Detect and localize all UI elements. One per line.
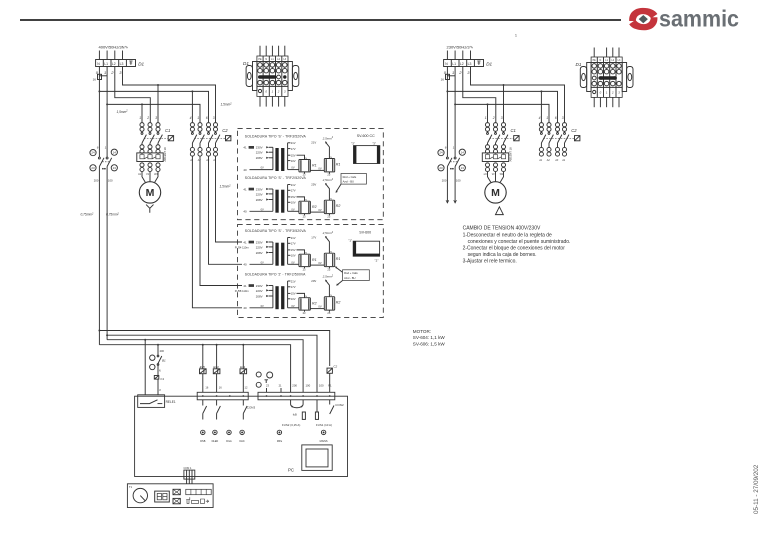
contactor C2: [189, 116, 231, 162]
svg-text:2-Conectar el bloque de co: 2-Conectar el bloque de conexiones del m…: [463, 245, 566, 251]
wire B1 chain: [157, 345, 159, 356]
delta symbol: [496, 207, 504, 215]
svg-text:MPa: MPa: [277, 440, 283, 443]
buttons: [173, 489, 180, 494]
svg-text:1,5mm2: 1,5mm2: [220, 185, 232, 189]
fuse F on wire 0: [98, 74, 102, 79]
svg-text:1: 1: [515, 34, 517, 38]
connector CON3: [197, 392, 255, 409]
svg-text:DLED: DLED: [212, 440, 219, 443]
svg-text:DAC: DAC: [239, 440, 244, 443]
terminal strip D1 right: [444, 60, 484, 67]
junction EV1 drop: [242, 344, 244, 346]
wire right C1 pole1 drop: [487, 104, 489, 122]
svg-text:L2: L2: [460, 62, 464, 66]
transformer TRF3 section 3: [243, 236, 334, 271]
wire bundle line 3: [107, 340, 303, 393]
wire C2 out3 to TRF3 40: [209, 156, 243, 264]
junction EV5 drop: [202, 344, 204, 346]
svg-text:sammic: sammic: [659, 6, 739, 32]
svg-text:T1: T1: [129, 485, 133, 489]
note arrow up: [336, 268, 342, 273]
svg-text:20V: 20V: [311, 279, 316, 283]
connector CON2: [258, 392, 344, 407]
svg-text:fuB: fuB: [293, 413, 297, 417]
svg-text:05-11 - 27/09/202: 05-11 - 27/09/202: [753, 464, 760, 514]
wire C1 pole3 drop: [157, 85, 159, 122]
svg-text:21V: 21V: [311, 141, 316, 145]
svg-text:1,5mm2: 1,5mm2: [221, 103, 233, 107]
wire L2 drop: [115, 67, 151, 123]
svg-text:3-Ajustar el rele termico.: 3-Ajustar el rele termico.: [463, 258, 517, 264]
svg-text:L1: L1: [104, 62, 108, 66]
icon row 2: [186, 497, 190, 503]
contacts below CON3: [203, 400, 247, 420]
main switch Q: [90, 146, 118, 183]
svg-text:17V: 17V: [311, 235, 316, 239]
svg-text:3: 3: [467, 70, 470, 75]
svg-text:MOTOR:: MOTOR:: [413, 329, 431, 334]
terminal labels above CON2: [292, 383, 332, 387]
contactor C2 right: [538, 116, 580, 162]
svg-text:CON 1: CON 1: [184, 466, 192, 470]
solenoid EV1: [242, 345, 244, 369]
svg-text:CON2: CON2: [335, 403, 344, 407]
fuse F on wire 0: [446, 74, 450, 79]
svg-text:SOLDADURA TIPO '2' - TRF2/: SOLDADURA TIPO '2' - TRF2/500VA: [245, 273, 306, 277]
wire bundle line 1: [99, 331, 329, 367]
main switch right: [438, 146, 466, 183]
svg-text:CON3: CON3: [247, 405, 256, 409]
svg-text:"2": "2": [375, 259, 379, 263]
svg-text:L1: L1: [452, 62, 456, 66]
svg-text:2,5mm2: 2,5mm2: [322, 275, 334, 279]
svg-text:12: 12: [245, 385, 248, 389]
junction right L3/C1p3: [503, 84, 505, 86]
top rule: [20, 19, 621, 21]
junction C2p1: [540, 90, 542, 92]
junction L1/C1p1: [141, 103, 143, 105]
terminal strip D1: [96, 60, 136, 67]
transformer TRF3 section 1: [243, 141, 334, 177]
breaker link tick: [99, 75, 107, 77]
svg-text:1: 1: [452, 70, 454, 75]
connector block D1 top middle: [246, 46, 299, 107]
wire 2 drop: [463, 67, 496, 123]
svg-text:N: N: [97, 62, 100, 66]
svg-text:100: 100: [319, 383, 324, 387]
svg-text:0,75mm2: 0,75mm2: [106, 213, 120, 217]
svg-text:0: 0: [159, 388, 161, 392]
contactor C1 right with motor: [482, 116, 519, 203]
svg-text:R1: R1: [336, 257, 341, 261]
pressure switch M4: [256, 372, 282, 392]
wire L1 feed line: [107, 104, 200, 122]
wire C2 out4 to TRF3 41: [216, 156, 243, 242]
svg-text:L2: L2: [112, 62, 116, 66]
svg-text:Azul - BU: Azul - BU: [343, 180, 354, 184]
junction N tee: [98, 90, 100, 92]
svg-text:MAINS: MAINS: [320, 440, 328, 443]
svg-text:2,5mm2: 2,5mm2: [322, 136, 334, 140]
svg-text:FUS2 (3,15 A): FUS2 (3,15 A): [282, 423, 300, 427]
solenoid EV3: [216, 345, 218, 369]
svg-text:R1: R1: [312, 258, 317, 262]
svg-text:Azul - BU: Azul - BU: [344, 276, 355, 280]
svg-text:D1: D1: [486, 61, 492, 66]
svg-text:SOLDADURA TIPO 'S' - TRF2/: SOLDADURA TIPO 'S' - TRF2/520VA: [245, 176, 307, 180]
trunk N lower segment: [98, 167, 100, 345]
wire C1 pole1 drop: [141, 104, 143, 122]
wire right C2 pole1 drop: [540, 91, 542, 122]
junction L1 bundle tee: [106, 334, 108, 336]
junction EV3 drop: [216, 344, 218, 346]
motor ratings note: [413, 329, 446, 347]
svg-text:"3": "3": [372, 141, 376, 145]
colour note box 1: [341, 174, 366, 185]
block wires top: [593, 48, 595, 58]
svg-text:1,5mm2: 1,5mm2: [117, 110, 129, 114]
knob: [133, 488, 147, 502]
svg-text:23: 23: [266, 384, 269, 388]
svg-text:R2: R2: [336, 204, 341, 208]
svg-text:"1": "1": [348, 238, 352, 242]
display: [155, 491, 170, 502]
svg-text:D1: D1: [576, 62, 582, 67]
relay RELE1: [138, 395, 176, 408]
wire C2 out1 to TRF4 0V: [192, 156, 242, 308]
svg-text:FU58 110m: FU58 110m: [235, 289, 250, 293]
svg-text:FU34 110m: FU34 110m: [235, 245, 250, 249]
svg-text:200: 200: [292, 383, 297, 387]
wire numbers 0 1 2 3: [96, 70, 123, 75]
junction C1p1: [487, 103, 489, 105]
svg-text:Rod + Cafe: Rod + Cafe: [343, 175, 357, 179]
svg-text:0,75mm2: 0,75mm2: [81, 213, 95, 217]
contactor C1 with thermal relay and motor M: [137, 116, 174, 203]
logo diamond: [639, 15, 648, 23]
svg-text:21: 21: [279, 384, 282, 388]
svg-text:16: 16: [219, 385, 222, 389]
svg-text:25V: 25V: [311, 182, 316, 186]
jumper bar: [258, 75, 277, 79]
wire C2 out2 to TRF4 41: [200, 156, 242, 285]
svg-text:SV-606: 1,5 kW: SV-606: 1,5 kW: [413, 342, 446, 347]
wire bundle line 4: [99, 345, 290, 393]
breaker link tick: [447, 75, 455, 77]
svg-text:N: N: [445, 62, 448, 66]
svg-text:2: 2: [458, 70, 462, 75]
block wires top: [259, 46, 261, 56]
svg-text:SOLDADURA TIPO 'S' - TRF3/: SOLDADURA TIPO 'S' - TRF3/520VA: [245, 134, 307, 138]
wire numbers 0 1 2 3: [444, 70, 471, 75]
trunk ends: [446, 167, 448, 203]
svg-text:2,5mm2: 2,5mm2: [322, 178, 334, 182]
svg-text:R1: R1: [336, 162, 341, 166]
svg-text:C2: C2: [333, 364, 337, 368]
svg-text:SV-600 CC: SV-600 CC: [357, 134, 375, 138]
svg-text:segun indica la caja de b: segun indica la caja de bornes.: [468, 252, 537, 258]
star symbol: [146, 205, 153, 213]
dashed box SV-600 CC: [238, 129, 384, 220]
wire 1 vertical: [454, 67, 456, 158]
junction N bundle tee: [98, 330, 100, 332]
svg-text:1-Desconectar el neutro de: 1-Desconectar el neutro de la regleta de: [463, 232, 552, 238]
connector block D1 top right: [580, 48, 633, 108]
svg-text:PC: PC: [288, 467, 294, 472]
svg-text:SV-600: SV-600: [359, 230, 371, 234]
svg-text:230V/50Hz/3∿: 230V/50Hz/3∿: [447, 45, 474, 50]
wire right 1 feed line: [455, 104, 549, 122]
wire N vertical (trunk): [98, 67, 100, 158]
junction L3/C1p3: [157, 84, 159, 86]
svg-text:F1: F1: [328, 383, 332, 387]
svg-text:R1: R1: [312, 163, 317, 167]
svg-text:2,5mm2: 2,5mm2: [322, 231, 334, 235]
dashed box SV-600: [238, 225, 384, 318]
note arrow down: [338, 281, 343, 285]
block wires bottom: [259, 96, 261, 106]
svg-text:100: 100: [306, 383, 311, 387]
note arrow: [337, 184, 342, 191]
svg-text:CAMBIO DE TENSION 400V/230V: CAMBIO DE TENSION 400V/230V: [463, 226, 541, 232]
svg-text:DGA: DGA: [226, 440, 232, 443]
wire L3 feed line: [123, 67, 216, 123]
svg-text:conexiones y conectar el p: conexiones y conectar el puente suminist…: [468, 239, 571, 245]
LED row: [201, 430, 205, 434]
wire N feed line: [99, 91, 208, 122]
wire bundle line 2: [107, 335, 317, 392]
contact C2 on F1 wire: [327, 368, 332, 373]
wire rele feed: [144, 340, 146, 395]
junction tee: [446, 90, 448, 92]
svg-text:16: 16: [205, 385, 208, 389]
svg-text:R2: R2: [312, 302, 317, 306]
svg-text:200: 200: [160, 349, 165, 353]
svg-text:400V/50Hz/3N∿: 400V/50Hz/3N∿: [99, 45, 129, 50]
svg-text:L3: L3: [468, 62, 472, 66]
PC board outline: [135, 396, 348, 476]
svg-text:C1: C1: [160, 377, 164, 381]
svg-text:R2: R2: [336, 301, 341, 305]
svg-text:16: 16: [441, 78, 445, 82]
svg-text:L3: L3: [120, 62, 124, 66]
wire C2 pole1 drop: [191, 91, 193, 122]
svg-text:FUS1 (10 A): FUS1 (10 A): [316, 423, 332, 427]
wire 0 vertical: [446, 67, 448, 158]
svg-text:2: 2: [110, 70, 114, 75]
fuse FUS1: [315, 400, 334, 427]
logo S icon lower arc: [629, 17, 657, 30]
jumper bar: [598, 76, 617, 80]
transformer TRF2 section 2: [243, 183, 334, 219]
wire right C1 pole3 drop: [503, 85, 505, 122]
pushbutton B1: [150, 355, 155, 360]
transformer TRF2 section 4: [243, 279, 334, 315]
svg-text:N: N: [159, 370, 161, 373]
svg-text:SV-604: 1,1 kW: SV-604: 1,1 kW: [413, 335, 446, 340]
junction N/C2p1: [191, 90, 193, 92]
junction B1 drop: [157, 344, 159, 346]
logo sammic: [629, 6, 739, 32]
svg-text:Rod + Cafe: Rod + Cafe: [344, 271, 358, 275]
svg-text:RELE1: RELE1: [166, 400, 176, 404]
aux contact C1: [154, 376, 159, 380]
transformer module: [302, 445, 332, 471]
svg-text:D1: D1: [138, 61, 144, 66]
logo S icon upper arc: [629, 8, 657, 21]
cambio de tension note: [463, 226, 571, 265]
junction rele drop: [144, 339, 146, 341]
junction tee: [454, 103, 456, 105]
wire L1 vertical (trunk): [106, 67, 108, 158]
svg-text:B1: B1: [162, 358, 166, 362]
svg-text:3: 3: [119, 70, 122, 75]
trunk L1 lower segment: [106, 167, 108, 340]
svg-text:SOLDADURA TIPO 'S' - TRF3/: SOLDADURA TIPO 'S' - TRF3/520VA: [245, 229, 307, 233]
fuse link below CON2: [282, 400, 305, 427]
svg-text:1: 1: [104, 70, 106, 75]
front panel: [127, 484, 213, 508]
svg-text:R2: R2: [312, 205, 317, 209]
wires to front panel: [186, 479, 188, 484]
solenoid EV5: [202, 345, 204, 369]
colour note box 2: [343, 270, 370, 281]
junction L1 tee: [106, 103, 108, 105]
wire right 0 feed line: [447, 91, 557, 122]
supply feed wires: [98, 51, 100, 60]
icon strip: [186, 489, 211, 494]
supply feed wires: [446, 51, 448, 60]
svg-text:DSB: DSB: [200, 440, 205, 443]
svg-text:16: 16: [93, 78, 97, 82]
block wires bottom: [593, 97, 595, 107]
svg-text:D1: D1: [243, 61, 249, 66]
svg-text:"3": "3": [351, 141, 355, 145]
wire 3 feed line: [471, 67, 565, 123]
